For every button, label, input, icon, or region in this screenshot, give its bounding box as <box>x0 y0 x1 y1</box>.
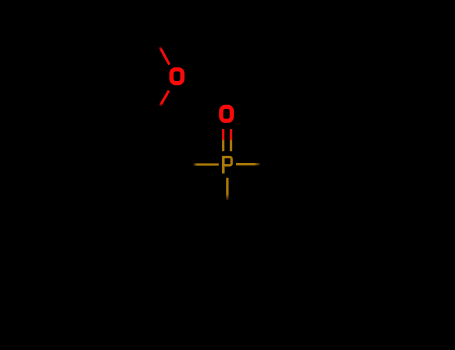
double bond P=O (left line) <box>222 129 224 151</box>
bond P-phenyl (down, visible gold half) <box>226 178 228 200</box>
atom P (phosphorus) <box>222 156 232 174</box>
double bond P=O (right line) <box>230 129 232 151</box>
bond O1-aryl (visible red half) <box>160 91 169 106</box>
bond P-phenyl (right, visible gold half) <box>236 163 260 165</box>
bond CH3-O (methoxy methyl to O1, visible red half) <box>160 47 170 65</box>
atom O1 (methoxy oxygen) <box>172 69 183 83</box>
bond P-aryl (left, visible gold half) <box>194 163 219 165</box>
atom O2 (phosphoryl oxygen) <box>221 107 232 121</box>
